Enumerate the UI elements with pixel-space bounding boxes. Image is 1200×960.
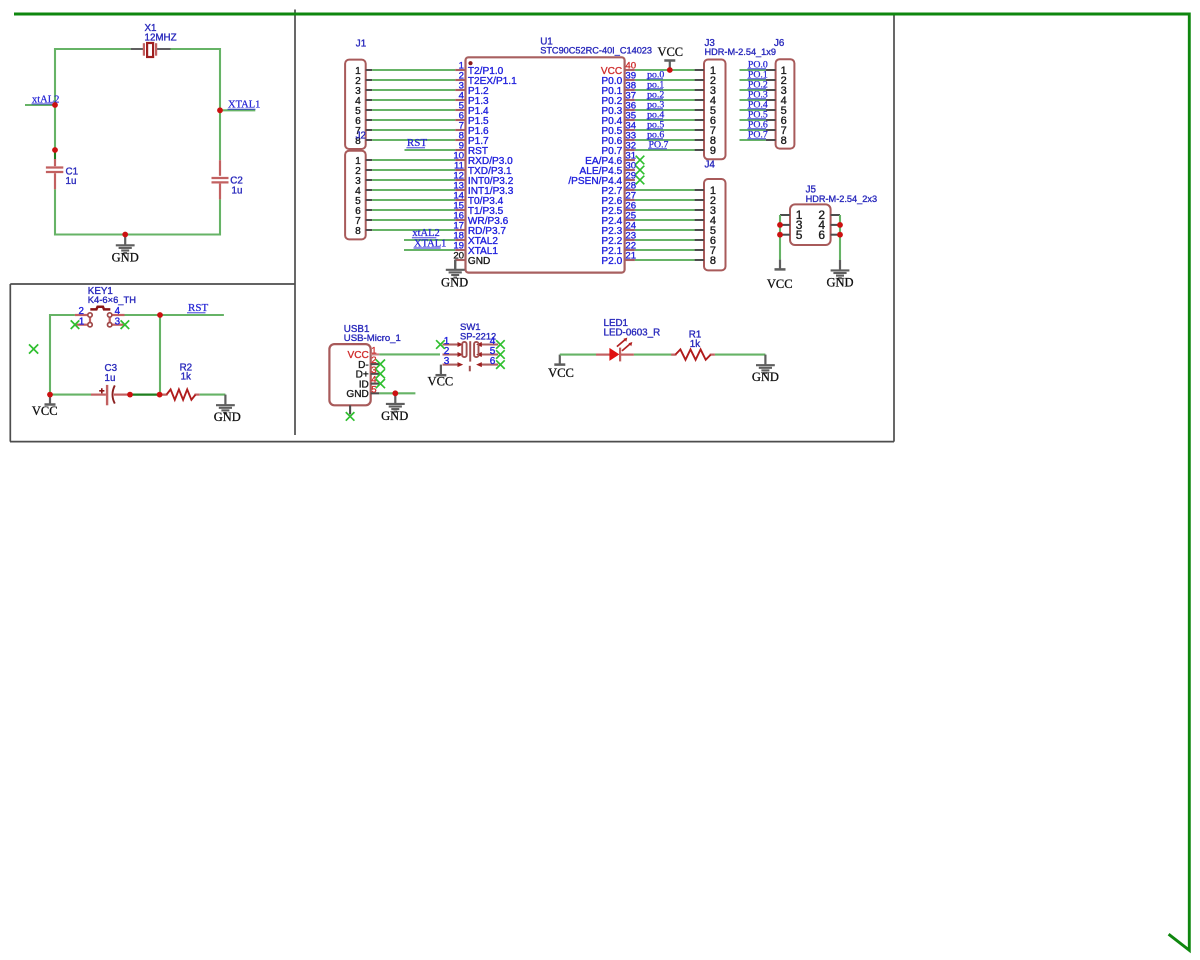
connector J5 <box>780 185 877 245</box>
wire crystal loop top-left <box>55 48 131 50</box>
usb connector USB1 <box>329 324 400 414</box>
connector J4 <box>695 160 726 271</box>
svg-text:VCC: VCC <box>548 366 574 380</box>
wire usb vcc to sw1 <box>379 353 440 355</box>
ground usb <box>381 393 408 423</box>
no-connect sw1 pin4 <box>496 340 505 349</box>
connector J2 <box>345 130 372 239</box>
crystal X1 <box>131 23 177 57</box>
svg-text:USB-Micro_1: USB-Micro_1 <box>344 333 401 344</box>
no-connect EA pin31 <box>636 156 645 165</box>
svg-text:8: 8 <box>781 135 787 147</box>
resistor R2 <box>162 362 199 400</box>
svg-text:J4: J4 <box>705 160 716 171</box>
svg-text:GND: GND <box>346 389 368 400</box>
wire J5 gnd rail <box>839 215 841 260</box>
no-connect sw1 pin1 <box>436 340 445 349</box>
no-connect usb ID <box>376 379 385 388</box>
key box left edge <box>9 284 11 442</box>
wire crystal loop top-right <box>171 48 222 50</box>
no-connect usb D+ <box>376 369 385 378</box>
wire overlap dark C3-R2 <box>130 393 160 395</box>
no-connect sw1 pin5 <box>496 350 505 359</box>
svg-text:3: 3 <box>444 356 450 367</box>
wire RST to right <box>125 314 224 316</box>
svg-text:GND: GND <box>381 409 408 423</box>
svg-text:4: 4 <box>115 306 121 317</box>
junction usb gnd <box>392 390 398 396</box>
svg-text:P2.0: P2.0 <box>601 256 622 267</box>
ground crystal <box>112 235 139 265</box>
svg-text:1: 1 <box>79 317 84 328</box>
no-connect key pin3 <box>121 320 130 329</box>
svg-text:8: 8 <box>355 226 361 237</box>
wires U1 to J3 <box>635 70 695 150</box>
slide switch SW1 <box>443 322 499 371</box>
wire key mid vertical <box>159 315 161 395</box>
sheet border right edge <box>893 13 895 442</box>
junction J5 pin6 <box>837 232 843 238</box>
svg-text:1u: 1u <box>232 185 243 196</box>
no-connect stray <box>29 344 38 353</box>
svg-text:GND: GND <box>468 256 490 267</box>
wire usb gnd <box>379 392 415 394</box>
svg-text:GND: GND <box>752 370 779 384</box>
wire R1 to gnd <box>715 354 766 356</box>
key box top edge <box>10 283 295 285</box>
power VCC led <box>548 355 574 380</box>
mcu U1 STC90C52RC <box>453 37 652 273</box>
power VCC key <box>32 395 58 418</box>
no-connect usb D- <box>376 360 385 369</box>
capacitor C1 <box>46 150 78 189</box>
svg-text:GND: GND <box>441 276 468 290</box>
svg-text:6: 6 <box>490 356 496 367</box>
wires J2 to U1 <box>372 160 455 230</box>
wire crystal left mid <box>54 105 56 150</box>
wire crystal loop bottom <box>54 233 221 235</box>
pushbutton KEY1 <box>75 286 136 327</box>
svg-text:1k: 1k <box>690 339 700 350</box>
power VCC u1 pin40 <box>657 45 683 67</box>
svg-text:VCC: VCC <box>32 404 58 418</box>
connector J3 <box>695 38 776 159</box>
wire R2 to gnd <box>200 394 226 396</box>
svg-text:STC90C52RC-40I_C14023: STC90C52RC-40I_C14023 <box>540 45 652 55</box>
svg-text:HDR-M-2.54_1x9: HDR-M-2.54_1x9 <box>705 47 776 57</box>
wire key top-left <box>50 314 75 316</box>
wire vcc to led <box>560 354 596 356</box>
svg-text:VCC: VCC <box>657 45 683 59</box>
junction xtAL2 <box>52 102 58 108</box>
no-connect usb shield <box>346 412 355 421</box>
power VCC J5 <box>767 260 793 291</box>
svg-text:J2: J2 <box>356 130 366 141</box>
capacitor C2 <box>212 160 243 199</box>
no-connect PSEN pin29 <box>636 176 645 185</box>
svg-text:GND: GND <box>826 276 853 290</box>
junction J5 pin5 <box>777 232 783 238</box>
sheet border bottom edge <box>10 441 894 443</box>
svg-text:J6: J6 <box>774 38 785 49</box>
net label xtAL2 with wire stub <box>25 104 55 106</box>
wire led to R1 <box>634 354 675 356</box>
net label RST u1 with wire <box>405 149 456 151</box>
svg-text:12MHZ: 12MHZ <box>145 32 177 43</box>
no-connect key pin1 <box>71 320 80 329</box>
junction key rst <box>157 312 163 318</box>
junction J5 pin3 <box>777 222 783 228</box>
svg-text:1u: 1u <box>105 373 116 384</box>
svg-text:9: 9 <box>710 145 716 157</box>
svg-text:LED-0603_R: LED-0603_R <box>604 328 661 339</box>
junction vcc pin40 <box>667 67 673 73</box>
net labels po.0-PO.7 <box>647 69 669 150</box>
svg-text:6: 6 <box>818 228 825 242</box>
connector J1 <box>345 39 372 149</box>
svg-text:2: 2 <box>79 306 84 317</box>
svg-text:VCC: VCC <box>767 277 793 291</box>
ground U1 pin20 <box>454 260 456 269</box>
wire crystal right side <box>219 110 221 160</box>
net label RST key <box>187 302 208 314</box>
net label XTAL1 with wire stub <box>220 109 255 111</box>
connector J6 <box>766 38 795 149</box>
junction C3 right <box>127 392 133 398</box>
svg-text:GND: GND <box>112 251 139 265</box>
wire J5 vcc rail <box>779 215 781 260</box>
no-connect ALE pin30 <box>636 166 645 175</box>
svg-text:VCC: VCC <box>428 374 454 388</box>
svg-text:J1: J1 <box>356 39 366 50</box>
wires U1 to J4 <box>635 190 695 260</box>
junction key vcc <box>47 392 53 398</box>
led LED1 <box>596 318 660 361</box>
sheet divider vertical <box>294 10 296 436</box>
wire key left vertical <box>49 314 51 395</box>
svg-text:5: 5 <box>796 228 803 242</box>
wire key bottom to C3 <box>50 394 91 396</box>
wires J6 with PO labels <box>740 59 768 140</box>
svg-text:8: 8 <box>710 255 716 267</box>
svg-text:GND: GND <box>214 410 241 424</box>
ground led <box>752 355 779 384</box>
wires J1 to U1 <box>372 70 455 140</box>
net label XTAL1 u1 with wire <box>404 249 455 251</box>
capacitor C3 polarized <box>91 363 129 405</box>
junction R2 node <box>157 392 163 398</box>
svg-text:K4-6×6_TH: K4-6×6_TH <box>88 294 136 305</box>
wire node to R2 <box>160 394 167 396</box>
svg-text:1u: 1u <box>66 176 77 187</box>
junction crystal gnd <box>122 232 128 238</box>
svg-text:1k: 1k <box>181 372 191 383</box>
wire crystal left lower <box>54 189 56 235</box>
junction C1 top <box>52 147 58 153</box>
wire crystal right lower <box>219 199 221 235</box>
power VCC sw1 <box>428 365 454 389</box>
ground key <box>214 395 241 425</box>
svg-text:HDR-M-2.54_2x3: HDR-M-2.54_2x3 <box>806 194 877 204</box>
net label xtAL2 u1 with wire <box>404 239 455 241</box>
resistor R1 <box>671 330 715 360</box>
svg-text:5: 5 <box>371 384 376 395</box>
junction J5 pin4 <box>837 222 843 228</box>
ground J5 <box>826 260 853 290</box>
junction XTAL1 <box>217 107 223 113</box>
no-connect sw1 pin6 <box>496 360 505 369</box>
svg-text:3: 3 <box>115 317 121 328</box>
svg-text:21: 21 <box>625 251 636 262</box>
